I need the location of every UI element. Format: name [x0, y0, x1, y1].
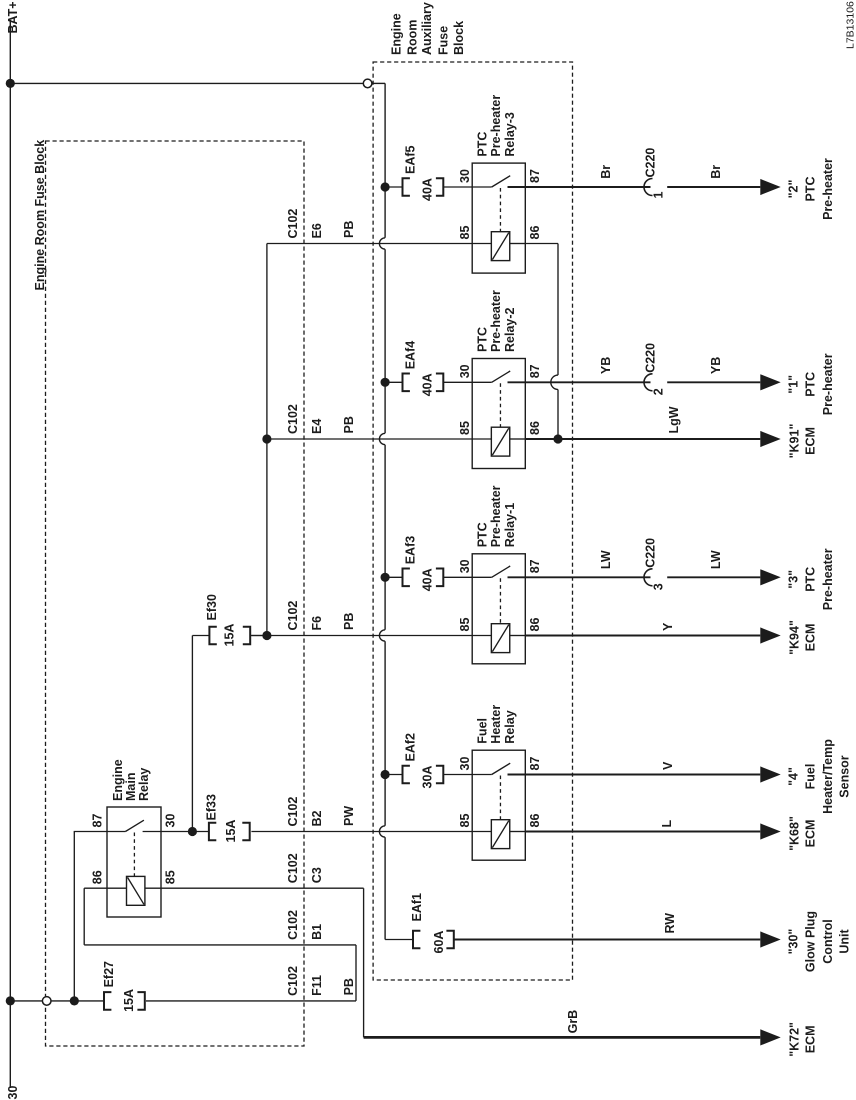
svg-text:E6: E6: [310, 223, 324, 238]
svg-text:Ef33: Ef33: [205, 794, 219, 820]
svg-text:C3: C3: [310, 867, 324, 883]
svg-text:30: 30: [6, 1086, 20, 1100]
relay U2 coil: [491, 427, 509, 456]
fuse Ef33 15A: [209, 823, 216, 841]
fuse Ef30 15A: [209, 627, 216, 645]
wire coil feed row C102 F6: [251, 635, 472, 637]
svg-text:F6: F6: [310, 616, 324, 631]
svg-text:EAf5: EAf5: [404, 145, 418, 174]
svg-text:L: L: [660, 820, 674, 828]
svg-text:PW: PW: [342, 806, 356, 826]
svg-text:Pre-heater: Pre-heater: [821, 548, 835, 610]
svg-text:85: 85: [458, 618, 472, 632]
svg-text:30: 30: [164, 814, 178, 828]
relay U3 coil wire left: [472, 635, 491, 637]
wire coil feed vertical bus: [266, 244, 268, 636]
wire C220 to PTC pre-heater 3 LW: [667, 576, 760, 578]
svg-text:C220: C220: [644, 343, 658, 373]
relay U2 coil link (dashed): [499, 383, 501, 427]
relay U1 coil wire right: [510, 243, 526, 245]
relay U1 coil link (dashed): [499, 188, 501, 232]
svg-text:PB: PB: [342, 221, 356, 238]
svg-text:Pre-heater: Pre-heater: [489, 95, 503, 157]
svg-text:V: V: [661, 761, 675, 770]
wire auxiliary fuse block feed vertical with crossover hops: [384, 83, 386, 237]
svg-text:Engine: Engine: [390, 13, 404, 55]
svg-text:Pre-heater: Pre-heater: [821, 353, 835, 415]
arrow to PTC pre-heater 2: [760, 179, 780, 195]
svg-text:Pre-heater: Pre-heater: [821, 158, 835, 220]
wire coil feed row C102 E6: [267, 243, 472, 245]
svg-text:Br: Br: [599, 165, 613, 179]
svg-text:ECM: ECM: [804, 624, 818, 652]
svg-text:E4: E4: [310, 419, 324, 434]
arrow to glow plug control unit: [760, 931, 780, 947]
svg-text:Relay-1: Relay-1: [503, 503, 517, 548]
wire Ef27 to C102 F11: [146, 1000, 356, 1002]
svg-text:Auxiliary: Auxiliary: [420, 2, 434, 55]
svg-text:Pre-heater: Pre-heater: [489, 290, 503, 352]
svg-text:B1: B1: [310, 924, 324, 940]
svg-text:30: 30: [458, 757, 472, 771]
svg-text:Fuse: Fuse: [437, 26, 451, 55]
svg-text:87: 87: [91, 814, 105, 828]
relay U3 switch blade: [492, 566, 511, 577]
svg-text:1: 1: [652, 192, 666, 199]
relay U2 coil wire right: [510, 438, 526, 440]
engine room fuse block (dashed box): [46, 141, 305, 1046]
svg-text:PB: PB: [342, 613, 356, 630]
wire vertical relay-3 86 drop with hop: [557, 244, 559, 376]
svg-text:86: 86: [528, 814, 542, 828]
wire fuel heater relay 86 output L: [525, 831, 760, 833]
svg-text:Control: Control: [821, 919, 835, 963]
wire engine main relay 86 drop: [83, 888, 85, 945]
relay U1 coil wire left: [472, 243, 491, 245]
svg-text:C102: C102: [286, 853, 300, 883]
svg-text:Ef30: Ef30: [205, 594, 219, 620]
connector ring at engine room fuse block feed: [42, 997, 51, 1006]
svg-text:85: 85: [164, 870, 178, 884]
relay U3 box (Relay-1): [472, 554, 525, 664]
svg-text:GrB: GrB: [566, 1010, 580, 1034]
wire relay-2 87 output YB: [508, 381, 651, 383]
relay U3 coil wire right: [510, 635, 526, 637]
svg-text:"4": "4": [787, 767, 801, 786]
wire feed to fuse EAf4: [385, 381, 402, 383]
svg-text:87: 87: [528, 169, 542, 183]
wire fuse EAf2 to relay pin 30: [443, 774, 472, 776]
wire feed to fuse EAf2: [385, 774, 402, 776]
svg-text:"K68": "K68": [788, 816, 802, 851]
svg-text:Room: Room: [406, 20, 420, 55]
svg-text:Pre-heater: Pre-heater: [489, 485, 503, 547]
svg-text:30: 30: [458, 559, 472, 573]
svg-text:Engine Room Fuse Block: Engine Room Fuse Block: [33, 140, 47, 291]
svg-text:"K91": "K91": [788, 424, 802, 459]
svg-text:C102: C102: [286, 910, 300, 940]
svg-text:C102: C102: [286, 209, 300, 239]
wire feed corner to fuse EAf1: [385, 939, 413, 941]
svg-text:LgW: LgW: [667, 406, 681, 433]
relay U4 switch stub: [472, 774, 492, 776]
svg-text:"K72": "K72": [788, 1022, 802, 1057]
svg-text:"30": "30": [787, 929, 801, 955]
connector C220 pin 2 (arc): [644, 374, 653, 391]
junction F6 row: [262, 631, 271, 640]
svg-text:C102: C102: [286, 601, 300, 631]
svg-text:Ef27: Ef27: [102, 961, 116, 987]
fuse Ef27 15A: [104, 992, 111, 1010]
wire GrB row to ECM K72: [364, 1036, 761, 1039]
svg-text:40A: 40A: [421, 373, 435, 396]
wire fuse EAf5 to relay pin 30: [443, 186, 472, 188]
wire engine main relay 87 output: [74, 831, 126, 833]
svg-text:"K94": "K94": [788, 620, 802, 655]
wire battery feed to auxiliary fuse block: [10, 82, 363, 84]
svg-text:LW: LW: [599, 550, 613, 569]
relay Engine Main Relay coil: [127, 876, 145, 905]
svg-text:Relay: Relay: [137, 768, 151, 801]
svg-text:C220: C220: [644, 148, 658, 178]
relay U1 coil: [491, 232, 509, 261]
arrow to PTC pre-heater 1: [760, 374, 780, 390]
svg-text:60A: 60A: [432, 931, 446, 954]
svg-text:PTC: PTC: [804, 567, 818, 592]
svg-text:Unit: Unit: [838, 929, 852, 954]
svg-text:ECM: ECM: [804, 1026, 818, 1054]
svg-text:Heater: Heater: [489, 705, 503, 744]
fuse EAf4 40A: [403, 374, 410, 392]
arrow to ECM K68: [760, 823, 780, 839]
svg-text:40A: 40A: [421, 568, 435, 591]
wire relay-2 86 output LgW: [525, 438, 760, 440]
wire Ef30 feed from engine main relay: [192, 635, 209, 637]
wire relay-3 86 to junction: [525, 243, 558, 245]
relay U3 coil link (dashed): [499, 578, 501, 623]
svg-text:30: 30: [458, 364, 472, 378]
svg-text:2: 2: [652, 388, 666, 395]
junction feed to fuse EAf4: [381, 378, 390, 387]
relay Engine Main Relay coil link (dashed): [133, 833, 135, 877]
svg-text:C220: C220: [644, 538, 658, 568]
wire engine main relay 30 to Ef33: [161, 831, 209, 833]
wire fuel heater relay 87 output V: [508, 774, 761, 776]
svg-text:RW: RW: [663, 913, 677, 934]
relay U3 coil: [491, 624, 509, 653]
svg-text:"3": "3": [787, 570, 801, 589]
svg-text:87: 87: [528, 364, 542, 378]
relay U4 coil link (dashed): [499, 776, 501, 820]
svg-text:PTC: PTC: [476, 327, 490, 352]
junction engine main relay 30 output: [188, 827, 197, 836]
relay U4 coil: [491, 820, 509, 849]
svg-text:"2": "2": [787, 180, 801, 199]
wire feed into auxiliary fuse block: [372, 82, 385, 84]
svg-text:Relay: Relay: [503, 710, 517, 743]
wire feed to fuse EAf5: [385, 186, 402, 188]
relay U1 box (Relay-3): [472, 163, 525, 273]
connector ring at auxiliary fuse block feed: [363, 79, 372, 88]
relay U3 switch stub: [472, 576, 492, 578]
svg-text:C102: C102: [286, 404, 300, 434]
relay U1 switch stub: [472, 186, 492, 188]
svg-text:LW: LW: [709, 550, 723, 569]
svg-text:87: 87: [528, 757, 542, 771]
wire B1 to F11 riser: [355, 945, 357, 1001]
svg-text:EAf4: EAf4: [404, 341, 418, 370]
wire engine main relay 86 left: [84, 887, 126, 889]
svg-text:Relay-3: Relay-3: [503, 112, 517, 157]
relay Engine Main Relay switch blade: [125, 820, 143, 831]
svg-text:YB: YB: [709, 357, 723, 374]
relay U2 coil wire left: [472, 438, 491, 440]
svg-text:YB: YB: [599, 357, 613, 374]
svg-text:PTC: PTC: [804, 177, 818, 202]
fuse EAf5 40A: [403, 178, 410, 196]
junction E4 row: [262, 434, 271, 443]
junction on BAT+ bus (top feed): [6, 79, 15, 88]
fuse EAf1 60A: [413, 931, 420, 949]
connector C220 pin 3 (arc): [644, 569, 653, 586]
svg-text:C102: C102: [286, 797, 300, 827]
wire C220 to PTC pre-heater 1 YB: [667, 381, 760, 383]
svg-text:PB: PB: [342, 978, 356, 995]
svg-text:C102: C102: [286, 966, 300, 996]
svg-text:"1": "1": [787, 375, 801, 394]
junction LgW row: [553, 434, 562, 443]
svg-text:PB: PB: [342, 416, 356, 433]
wire relay-3 87 output Br: [508, 186, 651, 188]
svg-text:L7B13106: L7B13106: [845, 1, 856, 49]
arrow to PTC pre-heater 3: [760, 569, 780, 585]
relay U4 coil wire left: [472, 831, 491, 833]
junction feed to fuse EAf2: [381, 770, 390, 779]
wire B1 row: [84, 944, 356, 946]
junction feed to fuse EAf3: [381, 573, 390, 582]
svg-text:Br: Br: [709, 165, 723, 179]
svg-text:BAT+: BAT+: [6, 1, 20, 33]
svg-text:Heater/Temp: Heater/Temp: [821, 739, 835, 814]
relay U2 switch blade: [492, 371, 511, 382]
svg-text:85: 85: [458, 421, 472, 435]
arrow to ECM K94: [760, 627, 780, 643]
wire coil feed row C102 E4: [267, 438, 472, 440]
svg-text:15A: 15A: [224, 820, 238, 843]
svg-text:ECM: ECM: [804, 427, 818, 455]
relay U4 box (Relay): [472, 750, 525, 860]
svg-text:PTC: PTC: [476, 132, 490, 157]
wire Ef30 to junction F6: [250, 635, 267, 637]
svg-text:15A: 15A: [223, 624, 237, 647]
svg-text:Y: Y: [661, 622, 675, 631]
svg-text:PTC: PTC: [804, 372, 818, 397]
svg-text:B2: B2: [310, 810, 324, 826]
svg-text:Fuel: Fuel: [476, 718, 490, 744]
wire feed to fuse EAf3: [385, 576, 402, 578]
svg-text:EAf2: EAf2: [404, 733, 418, 762]
svg-text:3: 3: [652, 583, 666, 590]
relay U4 coil wire right: [510, 831, 526, 833]
relay Engine Main Relay box: [107, 807, 161, 917]
svg-text:Relay-2: Relay-2: [503, 307, 517, 352]
svg-text:Sensor: Sensor: [838, 755, 852, 798]
svg-text:86: 86: [528, 226, 542, 240]
svg-text:85: 85: [458, 814, 472, 828]
wire engine main relay 85 to C102 C3: [145, 887, 364, 889]
engine room auxiliary fuse block (dashed box): [373, 62, 572, 980]
fuse EAf3 40A: [403, 569, 410, 587]
svg-text:Engine: Engine: [111, 759, 125, 801]
svg-text:EAf3: EAf3: [404, 536, 418, 565]
wire relay-1 87 output LW: [508, 576, 651, 578]
wire C220 to PTC pre-heater 2 Br: [667, 186, 760, 188]
junction feed to fuse EAf5: [381, 182, 390, 191]
svg-text:F11: F11: [310, 975, 324, 996]
svg-text:EAf1: EAf1: [410, 893, 424, 922]
junction on BAT+ bus (bottom feed): [6, 996, 15, 1005]
wire C3 drop to GrB row: [363, 888, 365, 1037]
svg-text:30A: 30A: [421, 766, 435, 789]
svg-text:40A: 40A: [421, 178, 435, 201]
svg-text:15A: 15A: [122, 989, 136, 1012]
arrow to ECM K91: [760, 431, 780, 447]
wire coil feed row C102 B2: [251, 831, 472, 833]
relay U2 box (Relay-2): [472, 359, 525, 469]
svg-text:Fuel: Fuel: [804, 764, 818, 790]
arrow to ECM K72: [760, 1029, 780, 1045]
wire relay-1 86 output Y: [525, 635, 760, 637]
wire engine main relay 87 riser: [73, 832, 75, 1001]
svg-text:30: 30: [458, 169, 472, 183]
fuse EAf2 30A: [403, 766, 410, 784]
svg-text:87: 87: [528, 559, 542, 573]
wire BAT+ vertical bus: [9, 20, 11, 1088]
arrow to fuel heater/temp sensor: [760, 766, 780, 782]
svg-text:Main: Main: [124, 773, 138, 801]
svg-text:Block: Block: [452, 21, 466, 55]
relay U4 switch blade: [492, 763, 511, 774]
svg-text:85: 85: [458, 226, 472, 240]
svg-text:ECM: ECM: [804, 820, 818, 848]
svg-text:Glow Plug: Glow Plug: [804, 911, 818, 972]
svg-text:86: 86: [528, 618, 542, 632]
junction engine main relay 87 branch: [70, 996, 79, 1005]
wire fuse EAf4 to relay pin 30: [443, 381, 472, 383]
svg-text:86: 86: [528, 421, 542, 435]
wire battery to fuse block (F11 row): [10, 1000, 104, 1002]
connector C220 pin 1 (arc): [644, 179, 653, 196]
svg-text:PTC: PTC: [476, 522, 490, 547]
relay U2 switch stub: [472, 381, 492, 383]
wire engine main relay 30 stub: [143, 831, 161, 833]
wire EAf1 output RW: [454, 939, 761, 941]
wire fuse EAf3 to relay pin 30: [443, 576, 472, 578]
svg-text:86: 86: [91, 870, 105, 884]
relay U1 switch blade: [492, 176, 511, 187]
